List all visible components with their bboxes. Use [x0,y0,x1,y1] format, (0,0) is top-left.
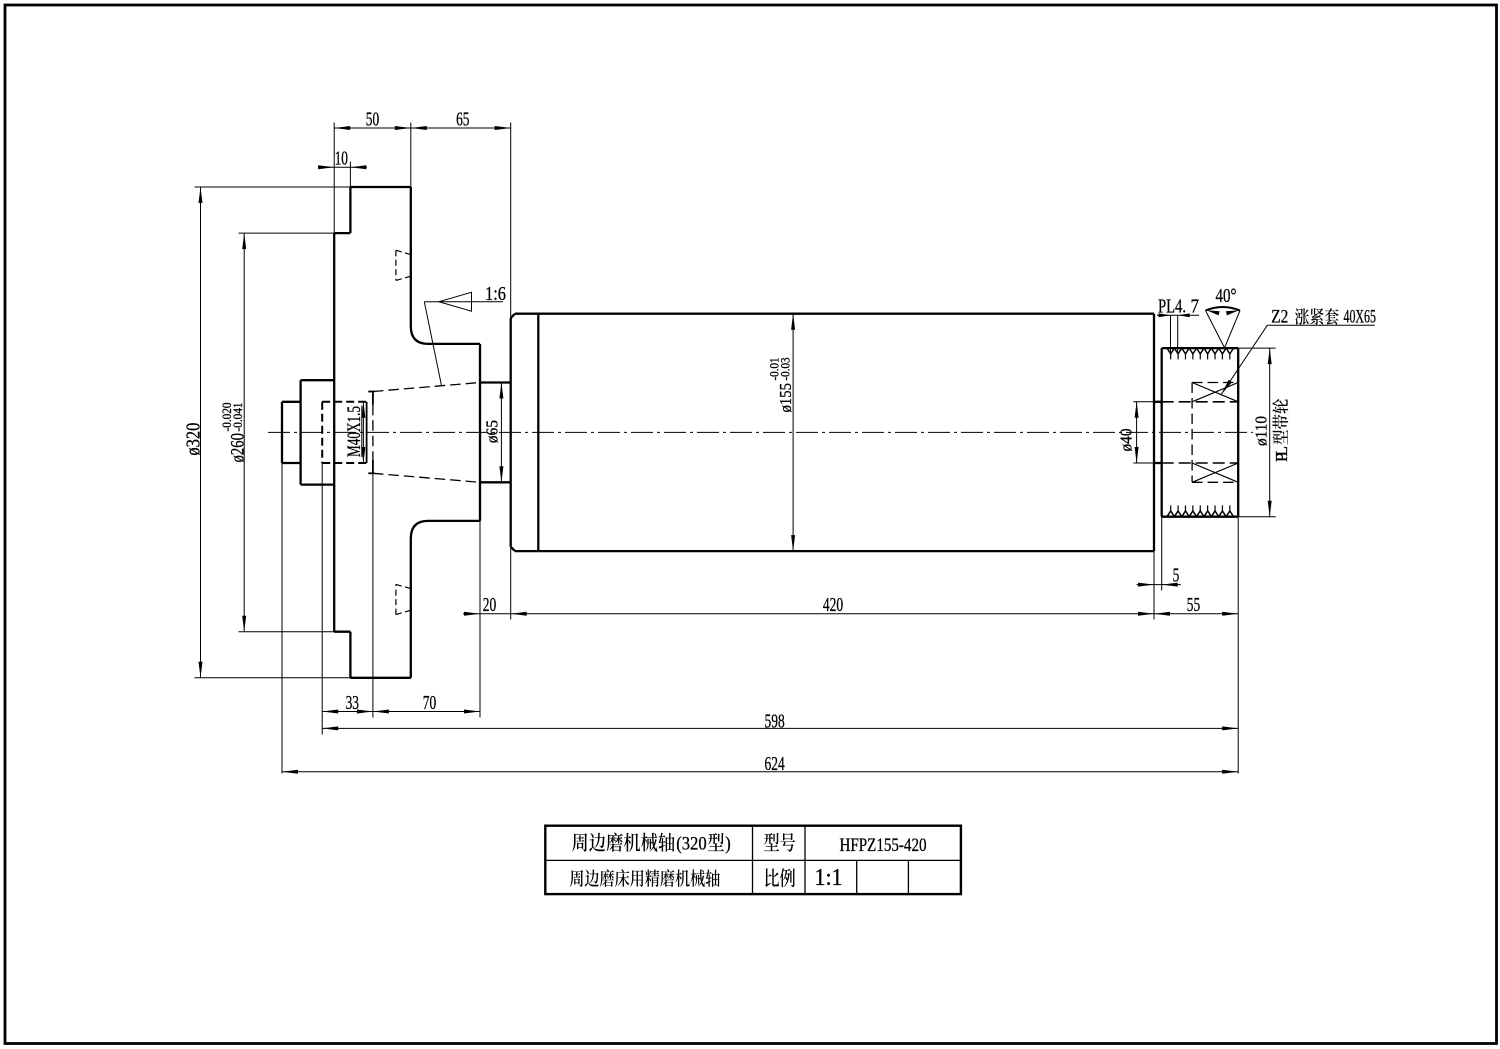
svg-text:33: 33 [346,693,359,714]
svg-text:ø110: ø110 [1252,416,1271,446]
svg-text:ø260: ø260 [228,433,248,463]
svg-text:55: 55 [1187,595,1200,616]
svg-text:-0.041: -0.041 [230,403,245,432]
svg-text:ø40: ø40 [1117,429,1136,452]
svg-text:598: 598 [765,711,785,732]
svg-text:1:1: 1:1 [815,865,843,891]
svg-text:7: 7 [1191,297,1200,318]
svg-text:ø65: ø65 [482,420,501,443]
svg-text:PL: PL [1272,446,1291,462]
svg-text:5: 5 [1173,565,1180,586]
svg-text:ø155: ø155 [776,383,795,413]
svg-text:-0.03: -0.03 [778,358,793,381]
svg-text:): ) [725,834,731,855]
svg-text:40X65: 40X65 [1344,307,1377,327]
svg-text:50: 50 [366,109,379,130]
svg-text:HFPZ155-420: HFPZ155-420 [840,835,927,856]
svg-text:624: 624 [765,754,785,775]
svg-text:1:6: 1:6 [485,284,506,305]
svg-text:70: 70 [423,693,436,714]
svg-text:65: 65 [456,109,469,130]
svg-text:20: 20 [483,595,496,616]
svg-text:40°: 40° [1216,286,1237,307]
svg-text:420: 420 [823,595,843,616]
svg-text:10: 10 [335,148,348,169]
svg-text:ø320: ø320 [183,423,204,456]
svg-text:Z2: Z2 [1271,307,1288,327]
svg-text:(320: (320 [676,834,707,855]
